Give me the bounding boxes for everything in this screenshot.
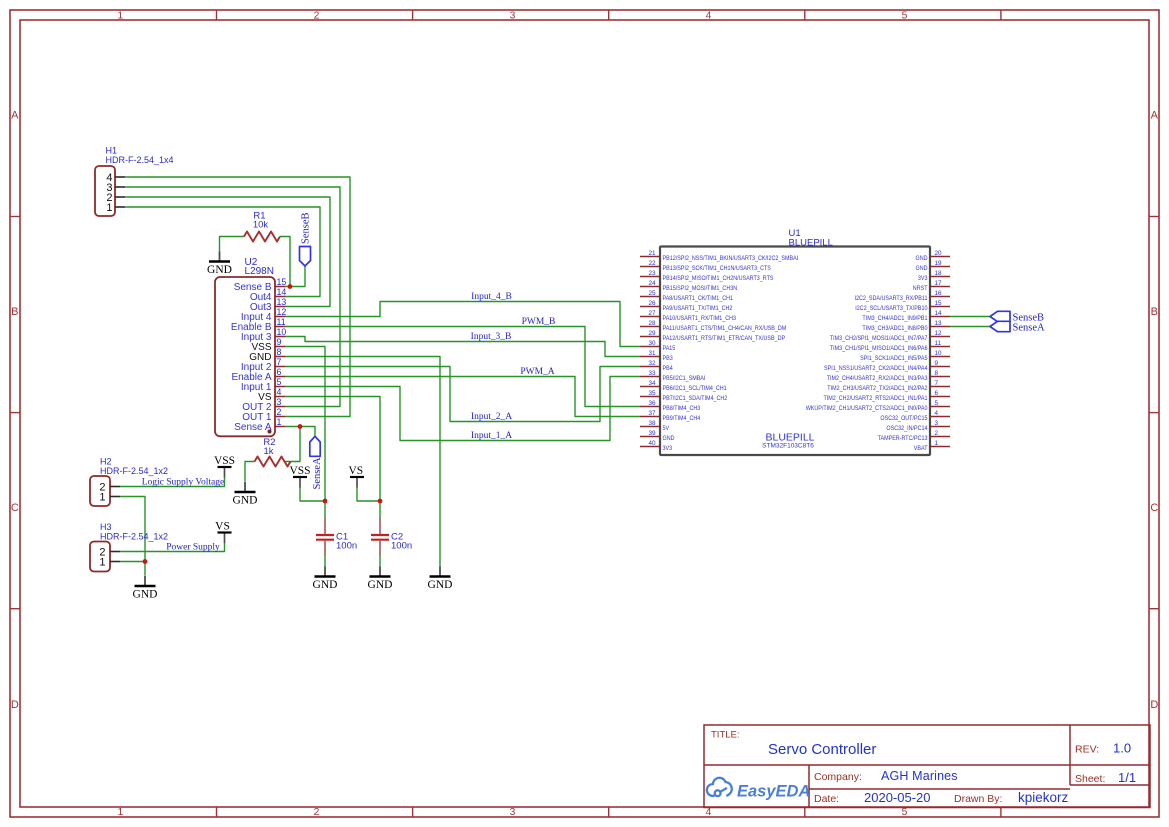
- svg-text:Sense A: Sense A: [234, 422, 272, 433]
- svg-text:Sheet:: Sheet:: [1075, 773, 1105, 785]
- svg-text:TIM2_CH3/USART2_TX2/ADC1_IN2/P: TIM2_CH3/USART2_TX2/ADC1_IN2/PA2: [827, 385, 928, 392]
- svg-text:14: 14: [277, 287, 287, 297]
- svg-text:23: 23: [648, 270, 656, 277]
- svg-text:1: 1: [106, 202, 112, 214]
- svg-text:EasyEDA: EasyEDA: [737, 783, 810, 801]
- svg-text:5: 5: [902, 807, 908, 818]
- svg-text:13: 13: [935, 320, 943, 327]
- svg-text:4: 4: [706, 807, 712, 818]
- svg-text:6: 6: [277, 367, 282, 377]
- svg-text:10: 10: [935, 350, 943, 357]
- svg-text:9: 9: [935, 360, 939, 367]
- svg-text:1.0: 1.0: [1113, 741, 1131, 756]
- svg-text:Servo Controller: Servo Controller: [768, 741, 876, 758]
- svg-text:PB13/SPI2_SCK/TIM1_CH1N/USART3: PB13/SPI2_SCK/TIM1_CH1N/USART3_CTS: [663, 265, 771, 272]
- svg-text:PWM_A: PWM_A: [520, 367, 554, 377]
- svg-text:8: 8: [935, 370, 939, 377]
- svg-text:B: B: [1151, 306, 1158, 318]
- svg-text:VSS: VSS: [214, 455, 235, 467]
- svg-text:4: 4: [935, 410, 939, 417]
- svg-text:PB14/SPI2_MISO/TIM1_CH2N/USART: PB14/SPI2_MISO/TIM1_CH2N/USART3_RTS: [663, 275, 774, 282]
- svg-text:32: 32: [648, 360, 656, 367]
- svg-text:GND: GND: [368, 579, 393, 591]
- svg-text:A: A: [11, 109, 19, 121]
- svg-text:14: 14: [935, 310, 943, 317]
- svg-text:NRST: NRST: [913, 285, 928, 292]
- svg-text:1: 1: [99, 556, 105, 568]
- svg-text:5: 5: [902, 11, 908, 22]
- svg-text:3: 3: [510, 807, 516, 818]
- svg-text:HDR-F-2.54_1x2: HDR-F-2.54_1x2: [100, 531, 168, 541]
- svg-text:BLUEPILL: BLUEPILL: [789, 238, 833, 249]
- svg-text:GND: GND: [916, 265, 928, 272]
- svg-text:4: 4: [277, 387, 282, 397]
- svg-text:PA8/USART1_CK/TIM1_CH1: PA8/USART1_CK/TIM1_CH1: [663, 295, 734, 302]
- svg-text:7: 7: [935, 380, 939, 387]
- svg-text:GND: GND: [233, 494, 258, 506]
- svg-text:PWM_B: PWM_B: [522, 317, 556, 327]
- svg-text:Date:: Date:: [814, 793, 839, 805]
- svg-text:VS: VS: [215, 521, 230, 533]
- svg-text:19: 19: [935, 260, 943, 267]
- svg-text:2: 2: [314, 807, 320, 818]
- svg-text:24: 24: [648, 280, 656, 287]
- svg-text:40: 40: [648, 440, 656, 447]
- svg-text:7: 7: [277, 357, 282, 367]
- svg-text:WKUP/TIM2_CH1/USART2_CTS2/ADC1: WKUP/TIM2_CH1/USART2_CTS2/ADC1_IN0/PA0: [806, 405, 928, 412]
- svg-text:28: 28: [648, 320, 656, 327]
- svg-text:OSC32_OUT/PC15: OSC32_OUT/PC15: [880, 415, 928, 422]
- svg-text:GND: GND: [428, 579, 453, 591]
- svg-text:PA11/USART1_CTS/TIM1_CH4/CAN_R: PA11/USART1_CTS/TIM1_CH4/CAN_RX/USB_DM: [663, 325, 787, 332]
- svg-text:Company:: Company:: [814, 771, 862, 783]
- svg-text:1: 1: [118, 11, 124, 22]
- svg-text:PB15/SPI2_MOSI/TIM1_CH3N: PB15/SPI2_MOSI/TIM1_CH3N: [663, 285, 738, 292]
- svg-text:1: 1: [118, 807, 124, 818]
- svg-text:C: C: [1150, 502, 1158, 514]
- svg-text:1: 1: [99, 491, 105, 503]
- svg-text:3: 3: [277, 397, 282, 407]
- svg-text:TIM2_CH4/USART2_RX2/ADC1_IN3/P: TIM2_CH4/USART2_RX2/ADC1_IN3/PA3: [827, 375, 928, 382]
- svg-text:SenseB: SenseB: [301, 213, 312, 245]
- svg-text:Input_2_A: Input_2_A: [471, 412, 512, 422]
- svg-text:B: B: [11, 306, 18, 318]
- svg-text:VBAT: VBAT: [914, 445, 928, 452]
- svg-text:L298N: L298N: [245, 266, 274, 277]
- svg-text:33: 33: [648, 370, 656, 377]
- svg-text:TIM3_CH1/SPI1_MISO1/ADC1_IN6/P: TIM3_CH1/SPI1_MISO1/ADC1_IN6/PA6: [830, 345, 928, 352]
- svg-text:11: 11: [935, 340, 942, 347]
- svg-text:OSC32_IN/PC14: OSC32_IN/PC14: [886, 425, 928, 432]
- svg-text:17: 17: [935, 280, 943, 287]
- svg-text:16: 16: [935, 290, 943, 297]
- svg-text:20: 20: [935, 250, 943, 257]
- svg-text:34: 34: [648, 380, 656, 387]
- svg-text:38: 38: [648, 420, 656, 427]
- svg-text:PA9/USART1_TX/TIM1_CH2: PA9/USART1_TX/TIM1_CH2: [663, 305, 733, 312]
- svg-text:1: 1: [277, 417, 282, 427]
- svg-text:35: 35: [648, 390, 656, 397]
- svg-text:SenseA: SenseA: [312, 457, 323, 489]
- svg-text:PB3: PB3: [663, 355, 674, 362]
- svg-text:TIM2_CH2/USART2_RTS2/ADC1_IN1/: TIM2_CH2/USART2_RTS2/ADC1_IN1/PA1: [824, 395, 928, 402]
- svg-text:5: 5: [277, 377, 282, 387]
- svg-text:3V3: 3V3: [663, 445, 673, 452]
- svg-text:Drawn By:: Drawn By:: [954, 793, 1002, 805]
- svg-text:PA15: PA15: [663, 345, 676, 352]
- svg-text:PB7/I2C1_SDA/TIM4_CH2: PB7/I2C1_SDA/TIM4_CH2: [663, 395, 728, 402]
- svg-text:1/1: 1/1: [1118, 770, 1136, 785]
- svg-text:9: 9: [277, 337, 282, 347]
- svg-text:GND: GND: [663, 435, 675, 442]
- svg-text:12: 12: [277, 307, 287, 317]
- svg-text:I2C2_SCL/USART3_TX/PB10: I2C2_SCL/USART3_TX/PB10: [855, 305, 928, 312]
- svg-text:D: D: [11, 699, 19, 711]
- svg-text:TITLE:: TITLE:: [711, 730, 740, 741]
- svg-text:GND: GND: [916, 255, 928, 262]
- svg-text:29: 29: [648, 330, 656, 337]
- svg-text:12: 12: [935, 330, 943, 337]
- svg-text:39: 39: [648, 430, 656, 437]
- svg-text:SPI1_NSS1/USART2_CK2/ADC1_IN4/: SPI1_NSS1/USART2_CK2/ADC1_IN4/PA4: [824, 365, 928, 372]
- svg-text:5: 5: [935, 400, 939, 407]
- svg-text:PA12/USART1_RTS/TIM1_ETR/CAN_T: PA12/USART1_RTS/TIM1_ETR/CAN_TX/USB_DP: [663, 335, 786, 342]
- svg-text:TAMPER-RTC/PC13: TAMPER-RTC/PC13: [878, 435, 928, 442]
- svg-text:4: 4: [706, 11, 712, 22]
- svg-text:A: A: [1151, 109, 1159, 121]
- svg-text:C: C: [11, 502, 19, 514]
- svg-text:GND: GND: [207, 264, 232, 276]
- svg-text:PB4: PB4: [663, 365, 674, 372]
- svg-text:STM32F103C8T6: STM32F103C8T6: [762, 443, 814, 450]
- svg-text:TIM3_CH2/SPI1_MOSI1/ADC1_IN7/P: TIM3_CH2/SPI1_MOSI1/ADC1_IN7/PA7: [830, 335, 928, 342]
- svg-text:2: 2: [277, 407, 282, 417]
- svg-text:Input_1_A: Input_1_A: [471, 431, 512, 441]
- svg-text:2: 2: [935, 430, 939, 437]
- svg-text:18: 18: [935, 270, 943, 277]
- svg-text:PB5/I2C1_SMBAI: PB5/I2C1_SMBAI: [663, 375, 706, 382]
- svg-text:25: 25: [648, 290, 656, 297]
- svg-text:HDR-F-2.54_1x2: HDR-F-2.54_1x2: [100, 466, 168, 476]
- svg-text:HDR-F-2.54_1x4: HDR-F-2.54_1x4: [106, 155, 174, 165]
- svg-text:10k: 10k: [253, 220, 269, 231]
- svg-text:PB6/I2C1_SCL/TIM4_CH1: PB6/I2C1_SCL/TIM4_CH1: [663, 385, 728, 392]
- svg-text:I2C2_SDA/USART3_RX/PB11: I2C2_SDA/USART3_RX/PB11: [855, 295, 928, 302]
- svg-text:10: 10: [277, 327, 287, 337]
- svg-text:PB8/TIM4_CH3: PB8/TIM4_CH3: [663, 405, 701, 412]
- svg-text:VS: VS: [348, 465, 363, 477]
- svg-text:VSS: VSS: [289, 465, 310, 477]
- svg-text:3: 3: [510, 11, 516, 22]
- svg-text:3: 3: [935, 420, 939, 427]
- svg-text:Logic Supply Voltage: Logic Supply Voltage: [142, 477, 225, 487]
- svg-text:Input_4_B: Input_4_B: [471, 292, 512, 302]
- svg-text:3V3: 3V3: [918, 275, 928, 282]
- svg-text:2020-05-20: 2020-05-20: [864, 790, 931, 805]
- svg-text:5V: 5V: [663, 425, 670, 432]
- svg-text:2: 2: [314, 11, 320, 22]
- svg-text:100n: 100n: [391, 541, 412, 552]
- svg-text:PB12/SPI2_NSS/TIM1_BKIN/USART3: PB12/SPI2_NSS/TIM1_BKIN/USART3_CK/I2C2_S…: [663, 255, 799, 262]
- svg-text:SPI1_SCK1/ADC1_IN5/PA5: SPI1_SCK1/ADC1_IN5/PA5: [860, 355, 928, 362]
- svg-text:kpiekorz: kpiekorz: [1018, 790, 1069, 805]
- svg-text:SenseA: SenseA: [1013, 322, 1045, 333]
- svg-text:TIM3_CH3/ADC1_IN8/PB0: TIM3_CH3/ADC1_IN8/PB0: [862, 325, 928, 332]
- svg-text:11: 11: [277, 317, 286, 327]
- svg-text:15: 15: [935, 300, 943, 307]
- svg-text:1k: 1k: [263, 446, 273, 457]
- svg-text:36: 36: [648, 400, 656, 407]
- svg-text:27: 27: [648, 310, 656, 317]
- svg-text:1: 1: [935, 440, 939, 447]
- svg-text:31: 31: [648, 350, 656, 357]
- svg-text:PA10/USART1_RX/TIM1_CH3: PA10/USART1_RX/TIM1_CH3: [663, 315, 737, 322]
- svg-text:TIM3_CH4/ADC1_IN9/PB1: TIM3_CH4/ADC1_IN9/PB1: [862, 315, 928, 322]
- svg-text:26: 26: [648, 300, 656, 307]
- svg-text:Power Supply: Power Supply: [166, 542, 220, 552]
- svg-text:37: 37: [648, 410, 656, 417]
- svg-text:AGH Marines: AGH Marines: [881, 769, 958, 783]
- svg-text:D: D: [1150, 699, 1158, 711]
- svg-text:13: 13: [277, 297, 287, 307]
- svg-text:100n: 100n: [336, 541, 357, 552]
- svg-text:PB9/TIM4_CH4: PB9/TIM4_CH4: [663, 415, 701, 422]
- svg-text:22: 22: [648, 260, 656, 267]
- svg-text:GND: GND: [133, 588, 158, 600]
- svg-text:6: 6: [935, 390, 939, 397]
- svg-text:15: 15: [277, 277, 287, 287]
- svg-text:Input_3_B: Input_3_B: [471, 332, 512, 342]
- svg-text:REV:: REV:: [1075, 744, 1099, 756]
- svg-text:8: 8: [277, 347, 282, 357]
- svg-text:GND: GND: [313, 579, 338, 591]
- svg-text:30: 30: [648, 340, 656, 347]
- svg-text:21: 21: [648, 250, 656, 257]
